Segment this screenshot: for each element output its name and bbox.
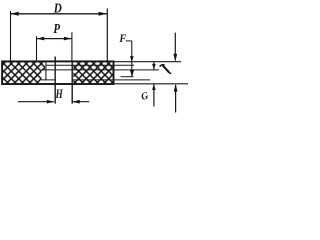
G upper partner stem with down arrow bbox=[153, 62, 155, 70]
svg-text:F: F bbox=[118, 32, 126, 45]
dimension P line bbox=[37, 38, 72, 40]
G stem down with up arrow at bottom surface bbox=[153, 84, 155, 106]
leader line upper recess floor stub bbox=[46, 64, 134, 66]
dimension T lower stem and arrow bbox=[175, 85, 177, 113]
dimension D extension left bbox=[10, 11, 12, 61]
label T bbox=[160, 65, 171, 74]
dimension P extension right bbox=[71, 32, 73, 61]
dimension D arrowhead left bbox=[11, 12, 19, 16]
dimension H line left with arrow bbox=[18, 101, 54, 103]
recess step line bbox=[45, 62, 47, 80]
leader line bottom surface bbox=[113, 83, 188, 85]
svg-text:D: D bbox=[53, 0, 62, 15]
recess floor line lower bbox=[42, 79, 151, 81]
hatched rim left lower bbox=[3, 71, 42, 83]
dimension D extension right bbox=[106, 9, 108, 64]
dimension P arrowhead left bbox=[37, 37, 45, 41]
F label connector bbox=[126, 40, 132, 42]
label G bbox=[140, 90, 150, 103]
hatched rim right bbox=[73, 62, 113, 83]
dimension H line right with arrow bbox=[73, 101, 90, 103]
svg-text:G: G bbox=[140, 90, 150, 103]
F arrow down to lower recess line bbox=[130, 70, 134, 77]
hole wall right / H extension bbox=[71, 62, 73, 104]
dimension T upper stem and arrow bbox=[174, 33, 176, 61]
dimension F stem bbox=[131, 41, 133, 77]
hatched rim left upper bbox=[3, 62, 45, 70]
svg-text:H: H bbox=[55, 87, 64, 101]
dimension P extension left bbox=[36, 36, 38, 61]
dimension D line bbox=[11, 13, 107, 15]
label H bbox=[55, 87, 64, 101]
label F bbox=[118, 32, 126, 45]
wheel cross-section bar outline bbox=[2, 61, 113, 84]
label D bbox=[53, 0, 62, 15]
recess floor line upper bbox=[42, 69, 160, 71]
dimension P arrowhead right bbox=[64, 37, 72, 41]
dimension D arrowhead right bbox=[99, 12, 107, 16]
leader line top surface bbox=[113, 61, 181, 63]
label P bbox=[53, 21, 60, 37]
hole wall left / H extension bbox=[54, 57, 56, 104]
svg-text:P: P bbox=[53, 21, 60, 37]
leader line lower recess stub bbox=[121, 76, 134, 78]
F arrow down to top surface bbox=[130, 56, 134, 62]
